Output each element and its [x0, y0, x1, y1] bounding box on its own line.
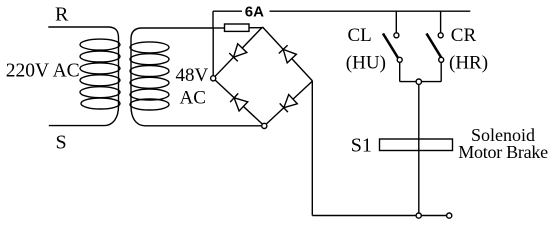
diode D2 (top-right edge) — [279, 45, 297, 63]
bridge edge wire B-R — [264, 81, 312, 126]
bridge edge wire T-R — [263, 27, 313, 81]
transformer T1 primary winding — [80, 39, 120, 109]
wire: joining bar under switches — [400, 81, 442, 83]
wire: secondary top lead to node — [131, 28, 262, 126]
svg-text:S: S — [56, 131, 67, 153]
switch CL upper contact — [394, 33, 399, 38]
fuse F1 — [225, 24, 250, 31]
switch CL: stub from top rail — [395, 11, 397, 33]
node: bridge bottom vertex (AC input) — [262, 123, 267, 128]
node: switch junction — [416, 79, 421, 84]
node: bottom junction — [416, 213, 421, 218]
svg-text:S1: S1 — [351, 135, 372, 157]
diode D1 (top-left edge) — [229, 44, 247, 62]
wire: R lead into transformer primary — [48, 27, 118, 126]
svg-text:6A: 6A — [245, 4, 264, 21]
switch CL arm — [383, 34, 398, 58]
wire: fuse to bridge top vertex — [249, 27, 263, 29]
switch CR lower contact — [439, 57, 444, 62]
node: bridge left vertex (AC input) — [211, 76, 216, 81]
svg-text:(HR): (HR) — [449, 52, 488, 73]
wire: CL lower contact down — [399, 62, 401, 81]
diode D3 (bottom-left edge) — [230, 93, 248, 111]
wire: bottom rail — [312, 215, 449, 217]
wire: CR lower contact down — [440, 62, 442, 81]
switch CR: stub from top rail — [440, 11, 442, 33]
bridge edge wire L-B — [213, 78, 264, 126]
terminal: bottom right open terminal — [447, 213, 452, 218]
svg-text:AC: AC — [180, 88, 206, 109]
solenoid S1 coil (Solenoid Motor Brake) — [380, 139, 453, 151]
wire: node to fuse — [213, 27, 224, 29]
wire: bridge right vertex down to bottom rail — [311, 81, 313, 216]
switch CL lower contact — [397, 57, 402, 62]
svg-text:Motor Brake: Motor Brake — [458, 142, 548, 162]
wire: vertical from top rail to transformer/fuse node — [212, 11, 214, 28]
svg-text:220V AC: 220V AC — [6, 60, 80, 81]
bridge edge wire L-T — [213, 27, 262, 78]
wire: top rail right segment (6A gap to right end) — [270, 10, 471, 12]
transformer T1 secondary winding — [130, 42, 169, 110]
svg-text:CL: CL — [348, 25, 372, 46]
wire: junction down to solenoid and bottom — [418, 84, 420, 213]
wire: node down to bridge left vertex — [212, 28, 214, 76]
svg-text:(HU): (HU) — [346, 52, 386, 73]
svg-text:CR: CR — [451, 25, 477, 46]
switch CR arm — [427, 34, 442, 58]
svg-text:R: R — [55, 3, 69, 25]
switch CR upper contact — [438, 33, 443, 38]
diode D4 (bottom-right edge) — [280, 95, 298, 113]
wire: top rail left segment (node to 6A gap) — [213, 10, 242, 12]
svg-text:48V: 48V — [176, 65, 209, 86]
